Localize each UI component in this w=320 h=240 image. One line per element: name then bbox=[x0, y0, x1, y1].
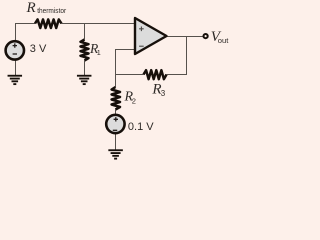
wire: 3V source bottom lead to ground bbox=[15, 60, 17, 75]
label Vout bbox=[211, 29, 229, 45]
node A junction (top wire to R1) bbox=[84, 24, 86, 40]
svg-text:R: R bbox=[26, 0, 36, 16]
wire: feedback from output down to R3 bbox=[167, 37, 187, 75]
label R2 bbox=[124, 89, 137, 105]
wire: R1 bottom to ground bbox=[84, 61, 86, 76]
wire: R2 bottom to 0.1V source bbox=[115, 110, 117, 116]
svg-text:3: 3 bbox=[161, 89, 166, 98]
svg-text:3 V: 3 V bbox=[30, 43, 47, 55]
resistor R3 bbox=[144, 70, 167, 79]
resistor Rthermistor bbox=[35, 19, 62, 28]
wire: 0.1V source bottom to ground bbox=[115, 133, 117, 150]
op-amp U1 bbox=[135, 18, 167, 54]
svg-text:2: 2 bbox=[132, 97, 136, 106]
wire: 3V source top lead to thermistor bbox=[16, 24, 36, 41]
ground (0.1V source) bbox=[108, 149, 123, 159]
svg-text:thermistor: thermistor bbox=[37, 6, 66, 15]
resistor R2 bbox=[112, 87, 120, 110]
label R3 bbox=[151, 82, 165, 99]
svg-text:0.1 V: 0.1 V bbox=[128, 121, 154, 133]
wire: thermistor to node A to op-amp + input bbox=[62, 23, 136, 25]
svg-text:out: out bbox=[218, 36, 229, 45]
voltage source V2 0.1 V bbox=[106, 115, 124, 133]
svg-text:1: 1 bbox=[97, 48, 101, 57]
terminal Vout bbox=[204, 34, 208, 38]
ground (R1) bbox=[77, 75, 92, 85]
wire: R3 left to node B bbox=[115, 74, 144, 76]
resistor R1 bbox=[81, 40, 89, 61]
wire: op-amp - input from node B bbox=[116, 50, 136, 88]
label Rthermistor bbox=[26, 0, 67, 16]
ground (3V source) bbox=[8, 75, 22, 85]
wire: op-amp output to Vout terminal bbox=[167, 36, 203, 38]
label R1 bbox=[89, 41, 101, 57]
voltage source V1 3 V bbox=[6, 41, 24, 59]
